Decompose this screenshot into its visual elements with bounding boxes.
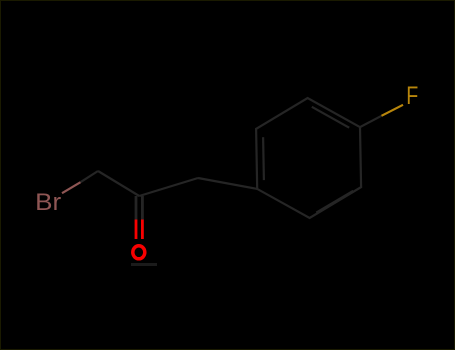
carbonyl C2=O double bond, oxygen halves (red) [135, 220, 138, 240]
bond Br-C1 (carbon half) [81, 171, 99, 182]
benzene ring outer bonds [256, 98, 361, 218]
carbonyl C2=O double bond, carbon halves (dark) [135, 196, 138, 220]
ring double bond inner line E-G [316, 191, 353, 213]
ring double bond inner line A-B [262, 137, 265, 180]
oxygen label O (drawn as ellipse ring to match condensed bold glyph) [133, 246, 145, 259]
bond C1-C2 [98, 171, 139, 196]
bond ring-F (fluorine half, dark yellow) [382, 105, 404, 116]
artifact smudge under O [131, 263, 157, 266]
bond C2-C3 [139, 178, 198, 196]
ring double bond inner line C-D [312, 107, 349, 128]
svg-text:Br: Br [35, 189, 61, 216]
bond ring-F (carbon half) [360, 116, 382, 127]
svg-text:F: F [406, 82, 418, 110]
bond Br-C1 (bromine half, brown) [62, 182, 81, 193]
bond C3-ring [198, 178, 257, 189]
